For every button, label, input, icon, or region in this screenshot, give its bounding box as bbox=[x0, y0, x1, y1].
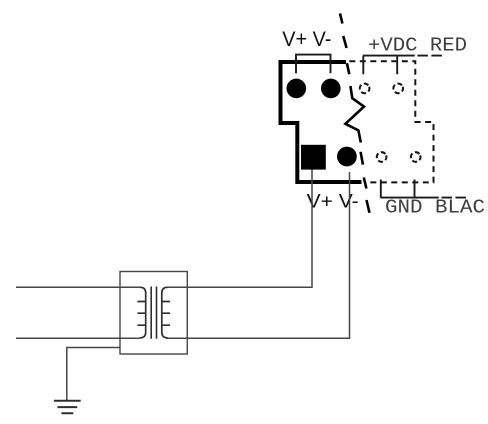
cable break slash 3 bbox=[347, 63, 349, 74]
mating pin 4 (dashed circle) bbox=[410, 151, 422, 163]
pin 1 V+ (filled circle) bbox=[287, 79, 307, 99]
cable break slash 4 bbox=[361, 152, 363, 165]
cable break slash 2 bbox=[343, 36, 346, 48]
svg-text:V+ V-: V+ V- bbox=[307, 191, 359, 213]
svg-text:GND BLAC: GND BLAC bbox=[385, 196, 485, 218]
mains wire N (bottom left) bbox=[16, 337, 140, 339]
transformer T1 case bbox=[120, 272, 187, 355]
GND leader bracket bbox=[380, 180, 438, 198]
transformer secondary winding bbox=[162, 287, 170, 338]
pin 3 V+ (filled square) bbox=[301, 145, 326, 170]
svg-text:+VDC RED: +VDC RED bbox=[368, 34, 467, 56]
transformer primary winding bbox=[137, 287, 145, 338]
GND leader dashed continuation bbox=[442, 197, 467, 199]
pin 4 V- (filled circle) bbox=[337, 147, 357, 167]
wire V+ (square pin down to transformer) bbox=[166, 170, 312, 288]
ground wire (case tap) bbox=[67, 348, 120, 401]
wire V- (round pin down to transformer) bbox=[166, 172, 350, 338]
svg-text:V+ V-: V+ V- bbox=[282, 28, 331, 51]
mating pin 3 (dashed circle) bbox=[375, 151, 387, 163]
transformer core bbox=[151, 287, 156, 339]
+VDC leader dashed continuation bbox=[417, 55, 442, 57]
mating connector (dashed outline) bbox=[349, 61, 433, 182]
pin 2 V- (filled circle) bbox=[321, 79, 341, 99]
connector J1 body (solid outline) bbox=[281, 62, 362, 182]
mains wire L (top left) bbox=[16, 286, 140, 288]
cable break zigzag bbox=[345, 86, 364, 143]
+VDC leader bracket bbox=[363, 56, 415, 75]
pin leader bracket top (V+ V-) bbox=[296, 55, 331, 74]
cable break slash 1 bbox=[340, 13, 342, 23]
cable break slash 5 bbox=[364, 178, 367, 189]
cable break slash 6 bbox=[367, 200, 370, 213]
mating pin 2 (dashed circle) bbox=[392, 82, 404, 94]
ground symbol bbox=[54, 401, 81, 414]
mating pin 1 (dashed circle) bbox=[358, 82, 370, 94]
